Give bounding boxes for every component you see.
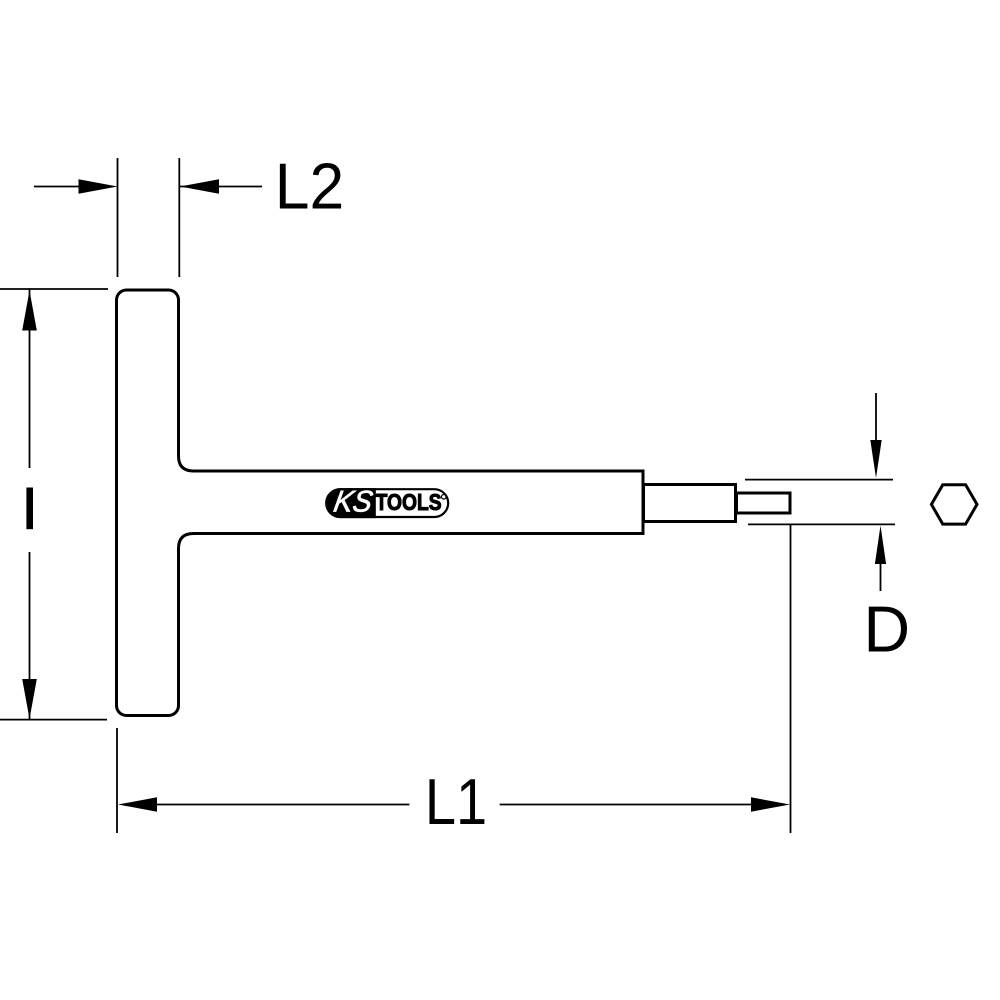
dimension L2: extension line right: [178, 158, 180, 277]
dimension L2: left arrow line: [34, 186, 82, 188]
dimension D: bottom extension line: [748, 523, 895, 525]
dimension L1: left line segment: [150, 804, 409, 806]
dimension I: top arrowhead: [22, 291, 37, 331]
dimension D: up arrow line: [880, 560, 882, 591]
dimension I: bottom arrowhead: [22, 679, 37, 719]
dimension I: top extension line: [0, 288, 108, 290]
dimension D: down arrow line: [875, 393, 877, 445]
dimension D: up arrowhead: [875, 526, 886, 565]
svg-text:L2: L2: [275, 152, 344, 223]
dimension I: upper line segment: [29, 290, 31, 469]
dimension D: down arrowhead: [870, 440, 881, 478]
svg-text:L1: L1: [425, 765, 487, 838]
dimension L2: right arrow line: [180, 186, 262, 188]
tool body outline (T-handle + shaft silhouette): [117, 290, 644, 716]
dimension I: lower line segment: [29, 552, 31, 720]
svg-text:KS: KS: [331, 485, 375, 519]
KS TOOLS logo capsule: [326, 489, 448, 517]
svg-text:D: D: [864, 594, 911, 666]
dimension L2: extension line left: [117, 158, 119, 277]
label I: [26, 488, 33, 530]
dimension L1: right line segment: [500, 804, 758, 806]
hex cross-section symbol: [931, 485, 977, 524]
dimension D: top extension line: [745, 479, 893, 481]
dimension I: bottom extension line: [0, 719, 107, 721]
dimension L2: left arrowhead: [79, 179, 118, 193]
dimension L1: right arrowhead: [751, 797, 790, 811]
svg-text:TOOLS: TOOLS: [376, 489, 442, 515]
logo left black pill: [326, 488, 376, 518]
ferrule section: [644, 485, 736, 522]
hex tip: [737, 493, 791, 513]
dimension L1: left extension line: [116, 728, 118, 833]
dimension L2: right arrowhead: [180, 179, 219, 193]
logo registered mark: [442, 495, 447, 500]
dimension L1: left arrowhead: [118, 797, 157, 811]
dimension L1: right extension line: [790, 525, 792, 834]
